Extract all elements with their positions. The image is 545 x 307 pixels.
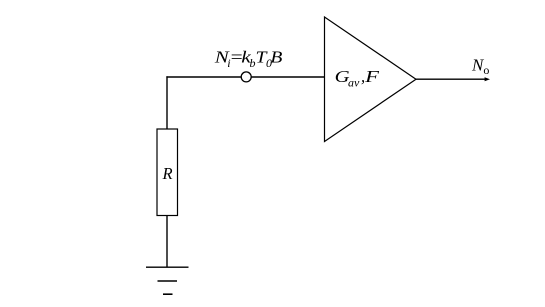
- resistor R (body): [157, 129, 178, 216]
- wire: vertical from corner down to resistor top: [166, 76, 168, 129]
- wire: output with arrowhead: [416, 77, 490, 81]
- wire: input horizontal from corner to amplifier input: [166, 76, 324, 78]
- wire: resistor bottom to ground: [166, 216, 168, 268]
- svg-text:R: R: [162, 164, 173, 183]
- ground: [146, 267, 189, 294]
- op-amp U1 (amplifier triangle): [325, 17, 417, 142]
- node A (input node with open-circle junction): [241, 72, 251, 82]
